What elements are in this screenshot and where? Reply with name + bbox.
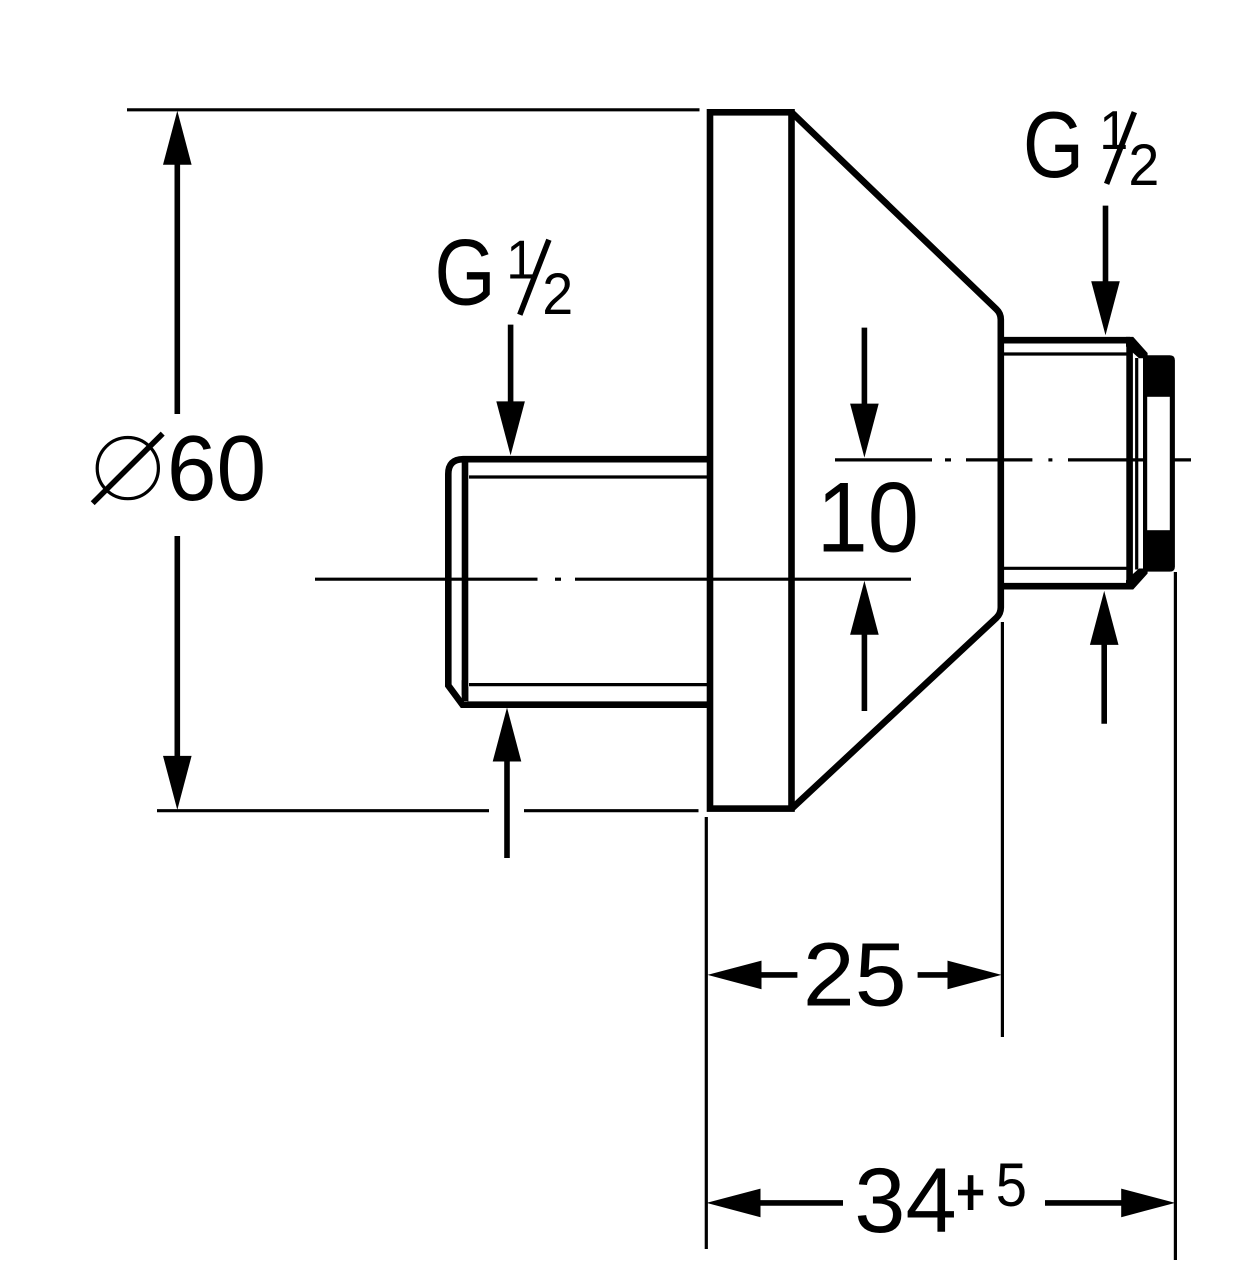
svg-text:2: 2 [542, 263, 573, 327]
svg-text:1: 1 [1099, 100, 1128, 162]
svg-text:34: 34 [854, 1150, 956, 1252]
svg-text:25: 25 [803, 925, 907, 1025]
svg-text:10: 10 [817, 462, 919, 573]
svg-text:2: 2 [1128, 134, 1159, 198]
svg-text:60: 60 [167, 416, 266, 520]
svg-text:G: G [1023, 94, 1084, 198]
svg-text:5: 5 [996, 1152, 1027, 1220]
svg-text:G: G [435, 221, 496, 325]
